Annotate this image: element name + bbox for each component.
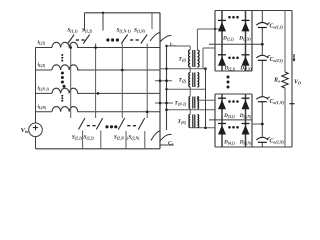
switch S(1,N-1)	[121, 35, 127, 44]
node extra row3	[97, 92, 100, 95]
wire T4 top drop	[189, 110, 191, 115]
node leg1 row1	[69, 46, 72, 49]
label Vo	[294, 80, 301, 86]
label minus output	[290, 103, 295, 105]
switch S(2,1)	[79, 118, 85, 130]
svg-text:S(2,1): S(2,1)	[72, 135, 83, 141]
wire phase row 3 left	[36, 92, 53, 94]
ellipsis switches top big	[106, 38, 119, 41]
svg-text:iL(N): iL(N)	[38, 104, 47, 110]
wire lower block mid	[209, 119, 252, 121]
label Co(1,1)	[270, 24, 284, 30]
current arc top right	[160, 35, 172, 42]
label iL(N)	[38, 104, 47, 110]
wire phase row 3 right	[77, 92, 160, 94]
capacitor Co(1,N)	[256, 97, 270, 102]
svg-text:S(2,N-1): S(2,N-1)	[114, 135, 129, 141]
svg-text:T(N): T(N)	[178, 119, 187, 125]
diode D(2,N)	[242, 55, 250, 66]
label D(3,1)	[223, 113, 235, 119]
svg-text:S(1,N-1): S(1,N-1)	[116, 28, 131, 34]
svg-text:D(1,1): D(1,1)	[222, 36, 234, 42]
wire bottom stub 3	[125, 131, 127, 149]
wire upper block bottom	[215, 70, 252, 72]
label Co(2,N)	[270, 139, 285, 145]
wire lower cap stub	[252, 123, 264, 126]
ellipsis rows 3-4	[61, 95, 63, 102]
svg-text:T(2): T(2)	[178, 78, 186, 84]
label Co(1,N)	[270, 99, 285, 105]
label S(1,1)	[67, 28, 78, 34]
wire phase row 1 right	[77, 47, 160, 49]
current arc bottom right	[160, 134, 172, 141]
svg-text:D(1,N): D(1,N)	[238, 36, 250, 42]
switch S(1,N)	[141, 35, 147, 44]
wire top bus drop left	[84, 13, 86, 31]
label Vin	[21, 127, 30, 134]
circuit schematic: multiphase interleaved converter	[0, 0, 309, 161]
label vCa top	[170, 43, 176, 48]
wire lower block right	[251, 94, 253, 147]
wire T3-T4 link	[165, 108, 215, 111]
ellipsis switches top a	[76, 39, 85, 41]
inductor L(1) phase 1	[52, 42, 78, 47]
label S(2,1)	[72, 135, 83, 141]
wire upper block left	[214, 11, 216, 72]
ellipsis switches bottom b	[127, 125, 136, 127]
diode D(3,1)	[218, 98, 226, 109]
wire phase row 4 right	[77, 111, 160, 113]
wire lower block top	[215, 93, 252, 95]
svg-text:VO: VO	[294, 80, 301, 86]
wire upper block mid	[209, 43, 264, 46]
diode D(1,1)	[218, 20, 226, 31]
ellipsis diodes row3	[228, 100, 239, 103]
wire lower branch D(3,N)	[245, 94, 247, 147]
wire mid stub 2	[155, 102, 173, 105]
ellipsis diodes row4	[228, 126, 239, 129]
wire T2-T3 link	[165, 88, 205, 90]
svg-text:S(2,2): S(2,2)	[83, 135, 94, 141]
diode D(3,N)	[242, 98, 250, 109]
wire secondary bus	[205, 69, 207, 128]
ellipsis switches bottom big	[105, 125, 117, 128]
label S(2,N-1)	[114, 135, 129, 141]
svg-text:D(2,N): D(2,N)	[239, 66, 251, 72]
wire output right rail	[291, 11, 293, 148]
ellipsis switches bottom a	[87, 125, 96, 127]
svg-text:Ca: Ca	[168, 141, 174, 147]
label Ca bottom	[168, 141, 174, 147]
wire top bus drop right	[151, 13, 153, 29]
wire T4 bottom link	[190, 127, 215, 130]
label D(1,N)	[238, 36, 250, 42]
wire phase row 2 right	[77, 69, 160, 71]
wire leg phase 3	[121, 44, 123, 119]
label D(2,1)	[224, 66, 236, 72]
switch S(2,N-1)	[118, 118, 124, 130]
label T(2)	[178, 78, 186, 84]
wire T1 left drop	[189, 46, 191, 50]
wire bottom bus extension	[160, 144, 174, 146]
wire leg phase 4	[146, 44, 148, 119]
diode D(1,N)	[242, 20, 250, 31]
transformer T3	[189, 97, 199, 109]
current arc top left	[150, 33, 160, 42]
resistor Ro	[282, 72, 288, 88]
current arc bottom left	[151, 131, 160, 141]
label D(4,N)	[239, 140, 251, 146]
transformer T1	[189, 50, 200, 67]
wire mid stub	[155, 79, 172, 82]
node leg2 row1	[94, 46, 97, 49]
label iL(N-1)	[38, 86, 50, 92]
wire lower branch D(3,1)	[221, 94, 223, 147]
inductor L(N) phase 4	[52, 107, 78, 112]
svg-text:Ro: Ro	[273, 78, 280, 84]
label S(2,N)	[128, 135, 140, 141]
ellipsis rows 1-2	[61, 54, 63, 62]
wire T2 bottom drop	[189, 87, 191, 89]
transformer T2	[189, 73, 199, 88]
wire leg phase 2	[95, 44, 97, 119]
ellipsis switches top b	[130, 39, 139, 41]
switch S(1,1)	[68, 35, 74, 44]
switch S(2,N)	[138, 118, 144, 130]
wire T1 bottom drop	[189, 67, 191, 69]
wire left input bus	[35, 48, 37, 124]
inductor L(2) phase 2	[52, 65, 78, 70]
wire bottom stub 2	[100, 131, 102, 149]
svg-text:Co(2,1): Co(2,1)	[270, 57, 284, 63]
ellipsis diodes row1	[228, 16, 239, 19]
label Ro	[273, 78, 280, 84]
wire bottom bus	[36, 148, 161, 150]
svg-text:Co(2,N): Co(2,N)	[270, 139, 285, 145]
label T(N-1)	[174, 100, 186, 106]
node leg3 row2	[121, 69, 124, 72]
wire lower block left	[214, 94, 216, 147]
svg-text:D(4,N): D(4,N)	[239, 140, 251, 146]
inductor L(N-1) phase 3	[52, 88, 78, 93]
svg-text:S(1,N): S(1,N)	[134, 28, 146, 34]
svg-text:D(2,1): D(2,1)	[224, 66, 236, 72]
wire leg phase 1	[70, 44, 72, 119]
svg-text:S(1,1): S(1,1)	[67, 28, 78, 34]
svg-text:T(N-1): T(N-1)	[174, 100, 186, 106]
svg-text:S(1,2): S(1,2)	[82, 28, 93, 34]
wire T3 top drop	[189, 89, 191, 96]
label S(1,2)	[82, 28, 93, 34]
svg-text:iCa: iCa	[170, 43, 176, 48]
svg-text:Vin: Vin	[21, 127, 30, 134]
svg-text:iL(2): iL(2)	[38, 62, 46, 68]
node top bus junction	[102, 12, 104, 14]
label D(2,N)	[239, 66, 251, 72]
wire T2 top drop	[189, 69, 191, 73]
label iL(1)	[38, 40, 46, 46]
wire capacitor string	[261, 11, 263, 148]
wire top bus	[85, 12, 161, 14]
ellipsis between blocks	[227, 76, 230, 89]
wire load branch bottom	[284, 88, 286, 147]
switch S(2,2)	[96, 118, 102, 130]
diode D(4,1)	[218, 124, 226, 135]
wire T1 secondary up	[196, 29, 198, 50]
svg-text:D(4,1): D(4,1)	[223, 140, 235, 146]
capacitor Co(2,N)	[256, 137, 270, 142]
wire output top rail	[215, 10, 292, 12]
wire load branch top	[284, 11, 286, 73]
wire upper branch D(1,1)	[221, 11, 223, 72]
transformer T4	[189, 115, 199, 128]
diode D(4,N)	[242, 124, 250, 135]
ellipsis rows 2-3	[61, 72, 66, 88]
wire lower secondary feed	[197, 97, 215, 100]
diode D(2,1)	[218, 55, 226, 66]
capacitor Co(2,1)	[256, 55, 270, 60]
svg-text:T(1): T(1)	[178, 56, 186, 62]
switch S(1,2)	[83, 35, 89, 44]
voltage source Vin	[29, 123, 43, 137]
wire bottom stub 4	[144, 131, 146, 149]
svg-text:iL(1): iL(1)	[38, 40, 46, 46]
label S(1,N-1)	[116, 28, 131, 34]
label iL(2)	[38, 62, 46, 68]
svg-text:D(3,N): D(3,N)	[239, 113, 251, 119]
label D(1,1)	[222, 36, 234, 42]
svg-text:S(2,N): S(2,N)	[128, 135, 140, 141]
wire source to bottom bus	[35, 137, 37, 149]
svg-text:D(3,1): D(3,1)	[223, 113, 235, 119]
wire T3 bottom drop	[189, 109, 191, 110]
wire top bus drop mid	[102, 13, 104, 31]
current arrow Io	[293, 54, 296, 62]
wire T4 bottom drop	[189, 127, 191, 129]
node leg4 row4	[146, 111, 149, 114]
wire phase row 1 left	[36, 47, 53, 49]
wire phase row 4 left	[36, 111, 53, 113]
wire upper block right	[251, 11, 253, 72]
wire upper branch D(1,N)	[245, 11, 247, 72]
wire T1 secondary feed	[197, 28, 222, 30]
wire bottom stub 1	[82, 131, 84, 149]
label T(N)	[178, 119, 187, 125]
svg-text:Co(1,1): Co(1,1)	[270, 24, 284, 30]
label D(4,1)	[223, 140, 235, 146]
wire main vertical rail	[159, 13, 161, 149]
wire output bottom rail	[215, 146, 292, 148]
label Co(2,1)	[270, 57, 284, 63]
label S(1,N)	[134, 28, 146, 34]
label T(1)	[178, 56, 186, 62]
svg-text:Co(1,N): Co(1,N)	[270, 99, 285, 105]
wire T1-T2 link	[160, 67, 207, 70]
label D(3,N)	[239, 113, 251, 119]
wire secondary vertical rail	[166, 46, 168, 130]
wire phase row 2 left	[36, 69, 53, 71]
ellipsis diodes row2	[228, 57, 239, 60]
label S(2,2)	[83, 135, 94, 141]
wire T1 top feed	[165, 45, 190, 47]
capacitor Co(1,1)	[256, 23, 270, 28]
wire T2 secondary feed	[203, 48, 215, 69]
svg-text:iL(N-1): iL(N-1)	[38, 86, 50, 92]
